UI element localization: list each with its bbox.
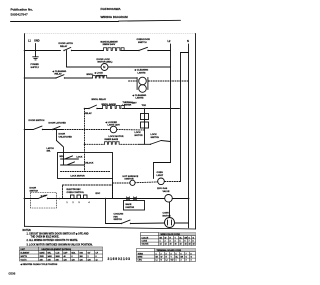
- footer date code: [9, 272, 16, 276]
- svg-text:W: W: [165, 237, 167, 239]
- wire rowA mid dashed: [135, 181, 157, 184]
- svg-text:TERM: TERM: [138, 253, 144, 255]
- svg-text:N: N: [187, 40, 189, 43]
- svg-text:LOCK: LOCK: [77, 156, 83, 158]
- wire EOC right rail: [112, 179, 114, 199]
- svg-text:1: 1: [176, 260, 177, 262]
- svg-text:BRL: BRL: [48, 252, 52, 254]
- wire row3 broil circuit: [24, 77, 56, 79]
- svg-text:LIMITER: LIMITER: [123, 105, 132, 107]
- wire L2 rail: [170, 44, 172, 163]
- svg-text:DOOR LOCK: DOOR LOCK: [97, 59, 111, 61]
- svg-text:240: 240: [40, 259, 43, 261]
- table footnote: [20, 263, 58, 266]
- svg-text:2: 2: [181, 260, 182, 262]
- svg-text:CIRC: CIRC: [138, 260, 143, 262]
- svg-text:LIGHTS: LIGHTS: [136, 98, 145, 100]
- wire L1 lead: [35, 44, 37, 57]
- lamp clean indicator: [137, 77, 148, 89]
- wire row1 to L2: [148, 50, 171, 52]
- svg-text:120: 120: [64, 259, 67, 261]
- wire sense to EOC dashed: [61, 172, 111, 178]
- svg-text:BAKE: BAKE: [40, 251, 46, 254]
- svg-text:INNER BAKE: INNER BAKE: [105, 138, 119, 141]
- svg-text:240: 240: [48, 259, 51, 261]
- wire row6 hidden bake: [85, 143, 105, 145]
- right wire code table: [141, 233, 196, 246]
- schematic frame bottom border: [25, 226, 196, 229]
- svg-text:OVEN: OVEN: [157, 172, 164, 174]
- EOC control board box: [63, 185, 113, 199]
- svg-text:UNLOCK: UNLOCK: [85, 163, 94, 165]
- wire motor top feed: [169, 202, 171, 217]
- svg-text:GAS: GAS: [163, 187, 168, 190]
- spark module dashed box: [31, 193, 57, 209]
- schematic frame top border (faint): [25, 33, 196, 35]
- svg-text:HEATING ELEMENT RATINGS: HEATING ELEMENT RATINGS: [42, 248, 72, 251]
- svg-text:18: 18: [180, 244, 182, 246]
- wire oven lamp drop: [67, 51, 102, 68]
- svg-text:VALVE: VALVE: [163, 190, 171, 193]
- wire row1 bake circuit: [24, 50, 61, 52]
- wire row4 to rails: [122, 108, 179, 110]
- svg-text:7: 7: [186, 253, 187, 255]
- svg-text:BAKE ELEMENT: BAKE ELEMENT: [101, 40, 119, 43]
- resistor broil element: [87, 74, 108, 78]
- svg-text:M: M: [103, 65, 105, 69]
- junction row4 L2: [170, 108, 172, 110]
- svg-text:LOCK: LOCK: [135, 132, 142, 134]
- svg-text:LOCK MOTOR: LOCK MOTOR: [109, 136, 124, 138]
- svg-text:14: 14: [160, 244, 162, 246]
- svg-text:SW.: SW.: [47, 151, 51, 153]
- svg-text:3: 3: [170, 241, 171, 243]
- switch clean relay: [52, 70, 67, 79]
- svg-text:FAN: FAN: [114, 215, 119, 218]
- svg-text:7: 7: [189, 241, 190, 243]
- wire row5 mid: [43, 129, 63, 131]
- lamp rowB valve: [163, 187, 173, 202]
- svg-text:DOOR: DOOR: [30, 188, 37, 190]
- wire row5 door circuit: [24, 129, 34, 131]
- svg-text:0506: 0506: [9, 272, 16, 276]
- switch row5 second: [52, 126, 60, 130]
- switch rowB: [30, 188, 49, 200]
- svg-text:LIGHTS: LIGHTS: [138, 73, 147, 75]
- svg-text:3. LOCK MOTOR SWITCHES SHOWN I: 3. LOCK MOTOR SWITCHES SHOWN IN UNLOCK P…: [27, 245, 93, 247]
- switch latch: [47, 141, 64, 153]
- wire rowB left: [25, 198, 39, 200]
- wire row3 mid: [65, 77, 93, 79]
- wire N rail: [188, 44, 190, 228]
- wire rowB right: [172, 198, 188, 200]
- label cleaning lights: [134, 69, 149, 75]
- svg-text:MOTOR: MOTOR: [135, 135, 144, 137]
- svg-text:DOOR: DOOR: [59, 134, 66, 136]
- junction rowB N: [188, 198, 190, 200]
- svg-text:5: 5: [176, 253, 177, 255]
- svg-text:40: 40: [64, 256, 66, 258]
- wire L2 bend to lamp: [154, 163, 171, 179]
- svg-text:LIGHT 120V: LIGHT 120V: [108, 125, 121, 127]
- svg-text:MOTOR (MDL): MOTOR (MDL): [98, 62, 113, 64]
- diagram number: [108, 257, 131, 261]
- svg-text:EOC: EOC: [96, 193, 101, 195]
- svg-text:UNLATCHED: UNLATCHED: [59, 135, 73, 138]
- switch row6 to L2: [139, 134, 171, 145]
- svg-text:12: 12: [96, 259, 98, 261]
- svg-text:GND: GND: [34, 40, 40, 43]
- svg-text:5: 5: [180, 241, 181, 243]
- switch MDL upper: [60, 156, 83, 159]
- svg-text:POWER: POWER: [31, 64, 40, 66]
- svg-text:1: 1: [160, 241, 161, 243]
- svg-text:LATCH: LATCH: [47, 147, 55, 150]
- wire row5 dashed: [63, 129, 111, 131]
- svg-text:LOCK MOTOR: LOCK MOTOR: [71, 176, 86, 178]
- notes line4: [27, 245, 93, 247]
- motor: [163, 213, 175, 228]
- svg-text:4: 4: [171, 253, 172, 255]
- svg-text:380: 380: [80, 256, 83, 258]
- svg-text:8: 8: [96, 256, 97, 258]
- svg-text:1: 1: [156, 253, 157, 255]
- label door latched: [49, 121, 67, 124]
- notes line1: [27, 232, 89, 235]
- svg-text:2: 2: [161, 253, 162, 255]
- svg-text:◆ LOCKED: ◆ LOCKED: [105, 121, 118, 124]
- svg-text:8: 8: [193, 241, 194, 243]
- notes line2: [31, 237, 60, 239]
- svg-text:L2: L2: [166, 260, 168, 262]
- svg-text:GAUGE: GAUGE: [142, 243, 150, 246]
- switch oven door: [137, 39, 151, 51]
- svg-text:BROIL RELAY: BROIL RELAY: [92, 98, 107, 101]
- svg-text:IGNITOR: IGNITOR: [126, 207, 135, 209]
- wire rowA to N branch: [165, 181, 181, 183]
- svg-text:THE OVEN IN IDLE MODE.: THE OVEN IN IDLE MODE.: [31, 237, 60, 239]
- lamp backguard left: [123, 175, 139, 186]
- svg-text:TOD: TOD: [142, 105, 147, 107]
- wire MDL junction: [63, 153, 65, 166]
- svg-text:RELAY: RELAY: [55, 73, 63, 76]
- svg-text:BAKE: BAKE: [126, 203, 133, 206]
- header model number: [101, 7, 129, 19]
- node N label: [187, 40, 189, 43]
- svg-text:ELECTRONIC: ELECTRONIC: [67, 189, 82, 191]
- svg-text:RELAY: RELAY: [85, 112, 93, 115]
- schematic frame right border: [195, 34, 197, 230]
- wire rowB through EOC: [48, 198, 165, 200]
- svg-text:BL: BL: [176, 257, 178, 259]
- svg-text:8: 8: [191, 253, 192, 255]
- svg-text:6: 6: [181, 253, 182, 255]
- wire row4 top element circuit: [84, 108, 89, 110]
- wire N branch rail: [181, 53, 189, 182]
- svg-text:WIRE COLOR CODE: WIRE COLOR CODE: [161, 234, 181, 236]
- svg-text:1. CIRCUIT SHOWN WITH DOOR SWI: 1. CIRCUIT SHOWN WITH DOOR SWITCH AT ◆ O…: [27, 232, 89, 235]
- wire row1 mid: [72, 50, 104, 52]
- svg-text:BROIL: BROIL: [87, 74, 94, 76]
- lamp oven light: [94, 59, 113, 78]
- notes line3: [27, 239, 79, 242]
- svg-text:3000: 3000: [56, 256, 60, 258]
- svg-text:ELEMENT: ELEMENT: [21, 252, 31, 254]
- svg-text:2: 2: [88, 256, 89, 258]
- right terminal table: [137, 249, 196, 262]
- svg-text:◆ CLEANING: ◆ CLEANING: [132, 94, 147, 97]
- wire latch branch: [57, 130, 73, 141]
- svg-text:IGNITOR: IGNITOR: [125, 179, 134, 181]
- lock motor block: [135, 105, 149, 144]
- svg-text:OVEN DOOR: OVEN DOOR: [137, 39, 151, 41]
- junction rowB border: [24, 198, 26, 200]
- junction rowB dots: [59, 198, 61, 200]
- fuse marks rowB: [127, 197, 137, 200]
- wire row3 to TOD: [108, 77, 138, 79]
- svg-text:DOOR LATCHED: DOOR LATCHED: [49, 121, 67, 124]
- svg-text:240: 240: [56, 259, 59, 261]
- label thermal limiter: [123, 101, 134, 107]
- resistor row4 element: [103, 106, 125, 109]
- notes heading: [23, 230, 32, 232]
- svg-text:◆ CLEANING: ◆ CLEANING: [134, 69, 149, 72]
- svg-text:316902103: 316902103: [108, 257, 131, 261]
- svg-text:DOOR SWITCH: DOOR SWITCH: [29, 120, 45, 122]
- svg-text:WATTS: WATTS: [21, 255, 28, 258]
- svg-text:18: 18: [193, 244, 195, 246]
- svg-text:◆ CLEANING: ◆ CLEANING: [52, 70, 67, 73]
- svg-text:SWITCH: SWITCH: [114, 219, 123, 221]
- svg-text:14: 14: [165, 244, 167, 246]
- svg-text:6: 6: [185, 241, 186, 243]
- left ratings table: [20, 247, 103, 261]
- svg-text:3: 3: [79, 202, 80, 204]
- svg-text:DOOR LATCH: DOOR LATCH: [59, 42, 74, 45]
- svg-text:120: 120: [88, 259, 91, 261]
- svg-text:HOT SURFACE: HOT SURFACE: [123, 175, 139, 178]
- svg-text:18: 18: [189, 244, 191, 246]
- svg-text:THERMAL: THERMAL: [123, 101, 134, 104]
- svg-text:◆ DENOTES CLEAN CYCLE POSITION: ◆ DENOTES CLEAN CYCLE POSITION: [20, 263, 58, 266]
- svg-text:120: 120: [80, 259, 83, 261]
- svg-text:◆ LOCK: ◆ LOCK: [94, 71, 104, 74]
- switch row4: [85, 98, 117, 115]
- svg-text:RELAY: RELAY: [60, 45, 68, 48]
- lock assembly box: [58, 153, 113, 179]
- svg-text:CONV: CONV: [163, 213, 170, 215]
- svg-text:BL: BL: [180, 237, 182, 239]
- lamp lock indicator: [132, 85, 147, 105]
- svg-text:4: 4: [175, 241, 176, 243]
- wire row4 mid: [97, 108, 103, 110]
- schematic frame left border: [24, 34, 26, 227]
- wire TOD to N dashed: [129, 80, 189, 82]
- node L2 label: [168, 40, 172, 43]
- svg-text:2: 2: [165, 241, 166, 243]
- svg-text:MDL: MDL: [72, 252, 76, 254]
- switch MDL lower: [61, 162, 94, 165]
- svg-text:COLOR: COLOR: [142, 237, 149, 239]
- svg-text:4: 4: [191, 260, 192, 262]
- svg-text:TERMINAL BOARD CODE: TERMINAL BOARD CODE: [157, 249, 182, 252]
- header rule: [11, 21, 119, 23]
- svg-text:CLN: CLN: [56, 252, 60, 254]
- svg-text:WIRING DIAGRAM: WIRING DIAGRAM: [101, 15, 129, 19]
- svg-text:2585W 240V: 2585W 240V: [103, 43, 116, 46]
- svg-text:3: 3: [166, 253, 167, 255]
- wire row6 dashed right: [121, 143, 139, 145]
- svg-text:120: 120: [72, 259, 75, 261]
- wire lamp to L2: [108, 66, 171, 68]
- switch bake relay: [59, 42, 74, 51]
- svg-text:VOLTS: VOLTS: [21, 259, 28, 261]
- svg-text:◆ OFF: ◆ OFF: [40, 195, 48, 198]
- svg-text:5995427847: 5995427847: [11, 13, 28, 17]
- wire rowA dashed: [113, 182, 130, 184]
- svg-text:6: 6: [72, 256, 73, 258]
- svg-text:MOTOR: MOTOR: [163, 215, 172, 217]
- wire to motor: [105, 198, 165, 225]
- svg-text:16: 16: [170, 244, 172, 246]
- svg-text:NOTES:: NOTES:: [23, 230, 32, 232]
- svg-text:1: 1: [67, 202, 68, 204]
- ground: [31, 57, 40, 69]
- lamp surface indicator: [157, 172, 165, 190]
- svg-text:3: 3: [186, 260, 187, 262]
- header publication label: [11, 8, 34, 17]
- svg-text:2: 2: [73, 202, 74, 204]
- wire sense rail dashed: [84, 109, 86, 172]
- svg-text:FGF3000AWA: FGF3000AWA: [101, 7, 122, 11]
- lamp latch indicator: [105, 121, 124, 138]
- wire row1 right: [122, 50, 139, 52]
- wire motor to N: [175, 222, 189, 224]
- resistor row6 element: [105, 138, 121, 144]
- svg-text:4: 4: [89, 202, 90, 204]
- svg-text:LOCK: LOCK: [151, 134, 158, 136]
- svg-text:Publication No.: Publication No.: [11, 8, 34, 12]
- svg-text:3400: 3400: [48, 256, 52, 258]
- svg-text:OVEN CONTROL: OVEN CONTROL: [67, 192, 85, 194]
- node L1 label: [28, 40, 40, 43]
- svg-text:WIRE: WIRE: [138, 257, 144, 259]
- svg-text:SWITCH: SWITCH: [138, 42, 147, 44]
- wire row5 dashed right: [117, 129, 145, 132]
- svg-text:W: W: [161, 257, 163, 259]
- switch door: [29, 120, 45, 130]
- svg-text:SUPPLY: SUPPLY: [31, 67, 40, 69]
- pin stubs EOC: [67, 195, 90, 204]
- svg-text:16: 16: [175, 244, 177, 246]
- svg-text:LIGHT: LIGHT: [157, 175, 164, 177]
- svg-text:L1: L1: [156, 260, 158, 262]
- svg-text:COOLING: COOLING: [114, 214, 124, 216]
- junction row5: [56, 129, 58, 131]
- svg-text:2. ALL WIRING ROTATED CIRCUITS: 2. ALL WIRING ROTATED CIRCUITS TO WHITE.: [27, 239, 79, 242]
- svg-text:CODE: CODE: [142, 241, 148, 243]
- resistor bake element: [101, 40, 125, 50]
- svg-text:2585: 2585: [40, 256, 44, 258]
- ignitor box: [124, 201, 145, 211]
- svg-text:18: 18: [185, 244, 187, 246]
- svg-text:SWITCH: SWITCH: [151, 137, 160, 139]
